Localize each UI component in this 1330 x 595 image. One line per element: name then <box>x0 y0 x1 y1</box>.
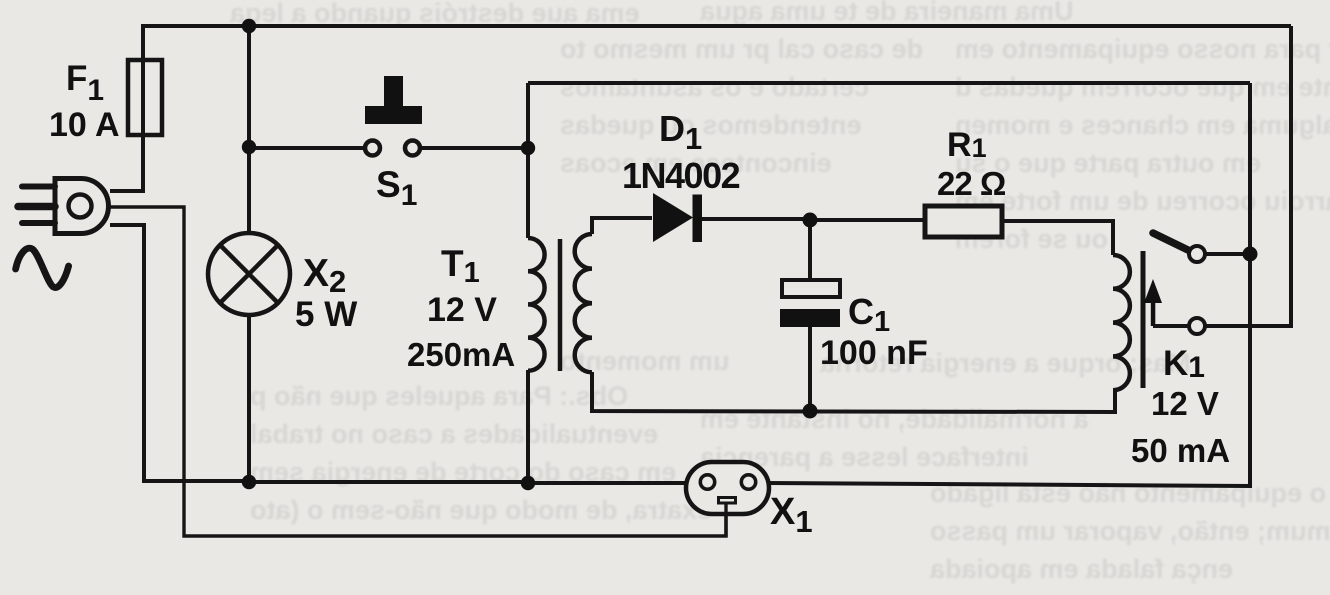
node K1 contact right rail <box>1243 247 1258 262</box>
wire lamp branch to lamp <box>247 147 251 234</box>
fuse F1 <box>128 60 162 135</box>
wire node to R1 <box>810 218 925 222</box>
wire R1 to K1 coil <box>1002 221 1113 255</box>
svg-text:de caso cal pr um mesmo to: de caso cal pr um mesmo to <box>560 34 923 64</box>
wire node to S1 <box>249 146 365 150</box>
resistor R1 <box>925 206 1002 237</box>
svg-text:ou alguma em chances e momen: ou alguma em chances e momen <box>955 110 1330 140</box>
capacitor C1 top plate <box>782 280 840 297</box>
svg-text:arroiu ocorreu de um forte em: arroiu ocorreu de um forte em <box>955 186 1330 216</box>
wire T1 secondary bottom rail <box>592 372 1115 412</box>
wire node down to C1 <box>808 220 812 281</box>
svg-text:22 Ω: 22 Ω <box>937 165 1006 202</box>
AC sine symbol <box>16 248 69 287</box>
relay K1 core <box>1141 251 1146 388</box>
socket X1 pin right <box>741 475 755 489</box>
svg-text:12 V: 12 V <box>427 291 497 329</box>
relay K1 coil winding <box>1113 255 1130 390</box>
svg-text:ser para nosso equipamento em: ser para nosso equipamento em <box>955 34 1330 64</box>
wire lamp bottom to rail <box>247 315 251 481</box>
transformer T1 core <box>558 239 563 371</box>
relay K1 contact circle 1 <box>1189 246 1205 262</box>
svg-text:50 mA: 50 mA <box>1131 432 1230 469</box>
node lamp/S1 junction <box>242 140 256 154</box>
socket X1 pin left <box>700 475 714 489</box>
wire bottom rail right of X1 <box>768 483 1250 486</box>
wire second rail <box>528 81 1250 85</box>
svg-text:10 A: 10 A <box>49 106 120 144</box>
S1 contact right <box>405 141 420 156</box>
lamp X2 <box>208 233 290 315</box>
node D1/C1/R1 <box>803 213 818 228</box>
wire D1 cathode to node <box>701 217 810 221</box>
wire K1 contact 2 rail to top <box>1153 324 1189 328</box>
node on top rail <box>242 19 256 33</box>
svg-text:certado e os asuntamos: certado e os asuntamos <box>560 72 869 102</box>
socket X1 ground slot <box>719 498 736 504</box>
svg-text:5 W: 5 W <box>295 295 357 334</box>
wire S1 to T1 junction <box>420 146 528 150</box>
diode D1 <box>653 193 702 242</box>
wire second rail right drop <box>1248 83 1252 254</box>
relay K1 actuation arrow <box>1144 279 1162 326</box>
transformer T1 primary winding <box>528 238 545 371</box>
node lamp bottom rail <box>242 475 256 489</box>
node T1 primary bottom rail <box>521 476 535 490</box>
svg-text:100 nF: 100 nF <box>820 334 928 372</box>
wire C1 to bottom node <box>808 326 812 411</box>
socket X1 ground pin wire <box>724 503 727 537</box>
wire K1 contact 2 to right riser <box>1205 26 1291 326</box>
socket X1 body <box>686 462 769 514</box>
node S1/T1 junction <box>521 141 535 155</box>
svg-text:comum; então, vaporar um passo: comum; então, vaporar um passo <box>930 516 1330 546</box>
wire top-left drop to fuse <box>141 24 145 62</box>
svg-text:ema aue destróis quando a lega: ema aue destróis quando a lega <box>229 0 640 28</box>
AC plug P1 body <box>55 179 108 234</box>
wire bottom rail left of X1 <box>249 482 688 483</box>
wire plug bottom terminal to bottom rail <box>110 225 249 481</box>
relay K1 armature <box>1153 233 1190 251</box>
svg-text:250mA: 250mA <box>407 336 515 373</box>
wire lamp branch vertical top <box>247 26 251 147</box>
wire T1 primary bottom to rail <box>526 370 530 482</box>
wire plug middle terminal to lower rail <box>110 207 726 536</box>
svg-text:1N4002: 1N4002 <box>622 155 740 196</box>
wire right outer drop <box>1248 254 1252 488</box>
svg-text:12 V: 12 V <box>1151 385 1219 422</box>
plug prong middle <box>18 203 55 211</box>
svg-text:eventualidades a caso no traba: eventualidades a caso no trabal <box>250 419 658 449</box>
svg-text:corrente em que ocorrem quedas: corrente em que ocorrem quedas d <box>955 72 1330 102</box>
wire top rail <box>143 24 1291 28</box>
svg-text:Obs.: Para aqueles que não p: Obs.: Para aqueles que não p <box>250 381 628 411</box>
node C1 bottom <box>803 404 818 419</box>
svg-text:a normalidade, no instante em: a normalidade, no instante em <box>700 404 1089 434</box>
svg-text:ença falada em apoiada: ença falada em apoiada <box>929 554 1233 584</box>
wire T1 secondary top to D1 <box>592 218 652 234</box>
wire second rail left drop to junction and T1 primary <box>526 83 530 238</box>
plug prong bottom <box>22 220 55 226</box>
svg-text:Uma maneira de te uma agua: Uma maneira de te uma agua <box>699 0 1074 26</box>
S1 contact left <box>365 141 380 156</box>
transformer T1 secondary winding <box>575 234 592 372</box>
svg-text:exatra, de modo que não-sem o: exatra, de modo que não-sem o (ato <box>250 495 712 525</box>
svg-text:entendemos ou quedas: entendemos ou quedas <box>560 110 862 140</box>
relay K1 contact circle 2 <box>1189 318 1205 334</box>
capacitor C1 bottom plate <box>780 309 840 327</box>
pushbutton S1 actuator <box>365 76 422 124</box>
wire through fuse down to plug top terminal <box>110 62 143 191</box>
wire K1 contact 1 to node <box>1205 252 1250 256</box>
plug prong top <box>22 184 55 190</box>
